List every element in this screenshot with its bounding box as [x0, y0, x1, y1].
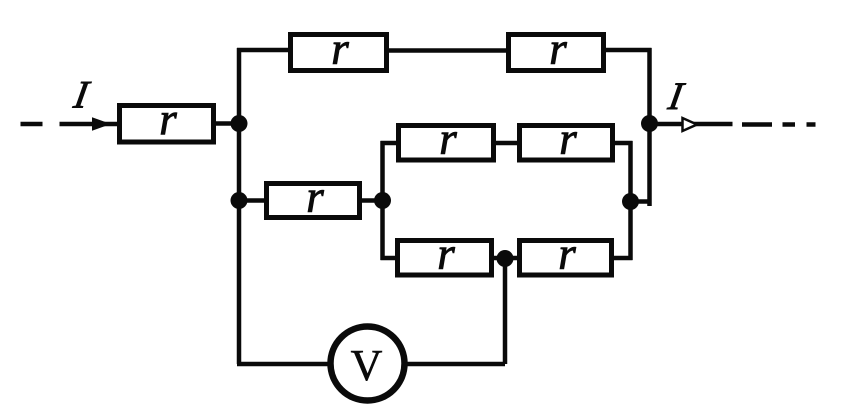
svg-text:r: r — [558, 229, 576, 279]
svg-text:r: r — [159, 94, 177, 144]
svg-text:r: r — [559, 114, 577, 164]
svg-text:r: r — [306, 172, 324, 222]
svg-text:r: r — [549, 24, 567, 74]
svg-text:V: V — [351, 341, 383, 390]
svg-text:r: r — [437, 229, 455, 279]
svg-text:r: r — [439, 114, 457, 164]
svg-text:r: r — [331, 24, 349, 74]
